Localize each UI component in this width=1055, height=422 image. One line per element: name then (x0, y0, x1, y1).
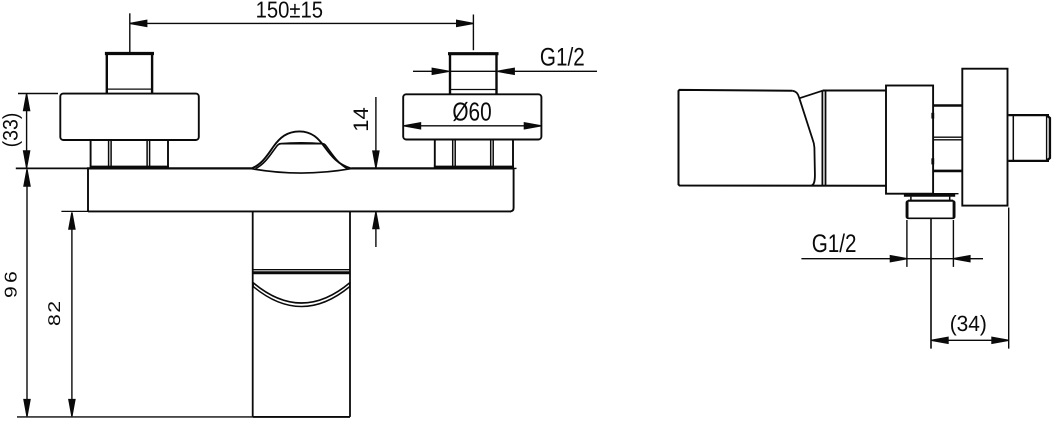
outlet fitting right: right edge (1047, 115, 1050, 160)
body cylinder top line (823, 90, 886, 92)
handle lever outline (679, 90, 887, 186)
right escutcheon plate (403, 94, 541, 139)
spout seam thin line (253, 269, 350, 271)
spout lip outer arc (253, 283, 350, 304)
dimension 14 lower leader (375, 212, 377, 247)
spout right edge (349, 211, 351, 417)
svg-text:Ø60: Ø60 (452, 97, 491, 127)
dimension 96 line and arrowheads (26, 169, 28, 416)
valve body rectangle (886, 86, 933, 194)
dimension 150±15 left extension line (129, 13, 131, 52)
G1/2 side left extension line (906, 220, 908, 267)
svg-text:150±15: 150±15 (256, 0, 323, 23)
mixer body top line left segment (87, 167, 252, 169)
dimension G1/2 side: left leader (801, 258, 890, 260)
G1/2 side right extension line (952, 220, 954, 267)
wall line right stub (514, 167, 517, 169)
dimension G1/2 top: left leader with arrowhead (413, 70, 432, 72)
dimension G1/2 top: line through fitting (450, 70, 497, 72)
body bottom extension line to left (61, 210, 88, 212)
bottom extension line (17, 416, 253, 418)
outlet neck right (949, 197, 951, 201)
mixer body right edge with rounded corner (510, 168, 513, 211)
left escutcheon plate (60, 94, 199, 140)
dimension (34) line and arrowheads (931, 339, 1008, 341)
cartridge collar line 1 (821, 91, 823, 186)
handle cut face diagonal (792, 91, 815, 186)
cartridge dome inner curve (256, 144, 348, 169)
valve body bottom outlet collar bar (904, 194, 955, 197)
svg-text:G1/2: G1/2 (812, 230, 857, 258)
handle cut face upper slope line (799, 91, 822, 99)
cartridge dome outer curve (251, 131, 352, 168)
dimension G1/2 top: right leader with arrowhead (498, 68, 515, 74)
mixer body bottom line (88, 210, 511, 212)
spout lip right hook (349, 283, 351, 287)
outlet neck left (910, 197, 912, 201)
mixer body left edge (87, 168, 89, 211)
svg-text:14: 14 (350, 107, 373, 132)
outlet nut top line (908, 199, 953, 201)
spout lip left hook (252, 283, 254, 287)
wall flange rectangle (962, 69, 1007, 206)
outlet fitting right: top line (1009, 114, 1050, 116)
dimension G1/2 side: middle segment (907, 258, 954, 260)
valve body bottom line to flange (933, 193, 958, 195)
dimension 150±15 left arrowhead (130, 20, 147, 26)
dimension G1/2 side: right tail (953, 256, 970, 262)
wall line left of body (16, 167, 88, 169)
right hex union nut (434, 140, 514, 167)
dimension (34) right extension line (1008, 208, 1010, 349)
cartridge dome inner top line (279, 142, 324, 145)
dimension 150±15 right extension line (472, 15, 474, 51)
svg-text:82: 82 (45, 299, 64, 326)
pipe centerline below nut (930, 219, 932, 349)
spout seam thick bar (253, 271, 350, 274)
svg-text:96: 96 (1, 268, 20, 298)
dimension 14 upper leader (375, 97, 377, 168)
svg-text:G1/2: G1/2 (540, 44, 585, 72)
dimension 82 line and arrowheads (71, 212, 73, 416)
left inlet fitting square (105, 54, 154, 94)
dimension 150±15 line (130, 22, 473, 24)
outlet fitting right: chamfer inner line (1046, 116, 1048, 160)
svg-text:(34): (34) (950, 311, 987, 336)
dimension Ø60 (404, 97, 541, 129)
outlet nut body (906, 201, 954, 218)
hex nut side view bands (933, 106, 963, 171)
mixer body top line right segment (351, 167, 513, 169)
spout bottom line (253, 416, 350, 418)
plate dip curve under dome (251, 169, 352, 173)
cartridge collar line 2 (825, 91, 827, 186)
outlet fitting right: bottom line (1009, 160, 1050, 162)
dimension 150±15 right arrowhead (457, 20, 474, 26)
left hex union nut (90, 140, 169, 167)
dimension (33) extension line top (18, 93, 58, 95)
svg-text:(33): (33) (0, 113, 22, 148)
spout lip inner arc (253, 287, 350, 307)
dimension (33) line and arrowheads (26, 94, 28, 168)
outlet fitting right: left edge (1012, 115, 1014, 161)
right inlet fitting square (448, 54, 499, 95)
spout left edge (252, 211, 254, 417)
